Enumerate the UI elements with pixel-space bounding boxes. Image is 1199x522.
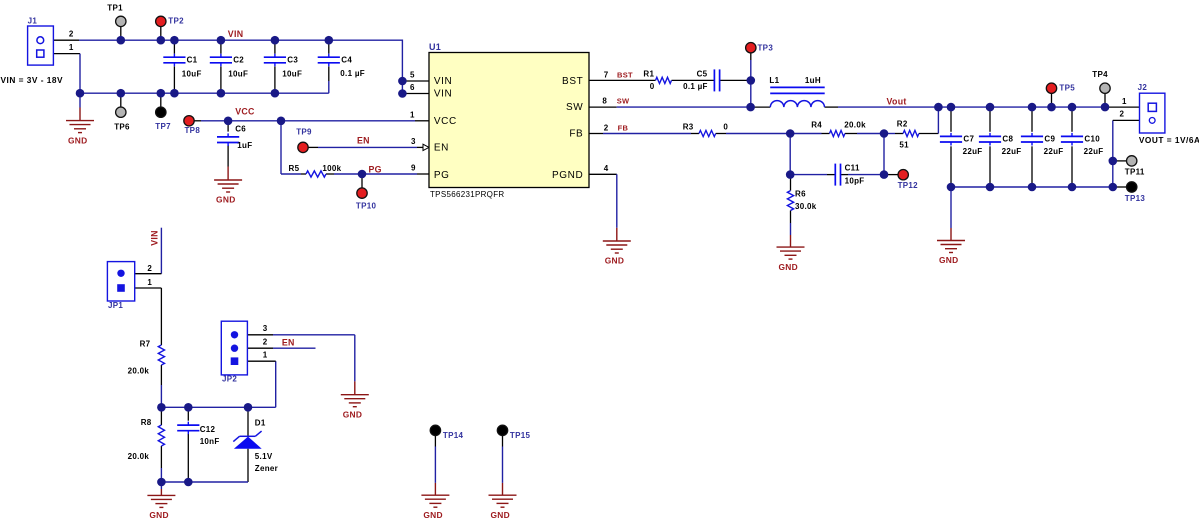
svg-text:VOUT = 1V/6A: VOUT = 1V/6A [1139,135,1199,145]
svg-text:JP2: JP2 [222,374,237,383]
svg-text:TP4: TP4 [1092,70,1108,79]
svg-text:J1: J1 [28,17,38,26]
svg-text:1uH: 1uH [805,76,821,85]
svg-text:C6: C6 [235,124,246,133]
svg-text:C12: C12 [200,425,216,434]
svg-text:VIN: VIN [434,89,452,100]
svg-text:22uF: 22uF [1044,147,1064,156]
svg-text:GND: GND [216,195,236,205]
svg-text:5: 5 [410,70,415,79]
svg-text:22uF: 22uF [1002,147,1022,156]
svg-text:U1: U1 [429,42,441,52]
svg-text:BST: BST [617,71,633,80]
svg-text:0.1 µF: 0.1 µF [683,82,708,91]
svg-text:TP9: TP9 [296,127,312,136]
svg-text:3: 3 [263,324,268,333]
svg-text:22uF: 22uF [1084,147,1104,156]
svg-text:C4: C4 [341,55,352,64]
svg-text:20.0k: 20.0k [128,452,150,461]
svg-text:TPS566231PRQFR: TPS566231PRQFR [430,190,504,199]
svg-text:PG: PG [434,170,450,181]
svg-text:TP7: TP7 [155,122,171,131]
svg-text:R1: R1 [643,69,654,78]
svg-text:GND: GND [490,510,510,520]
svg-text:1: 1 [263,351,268,360]
svg-text:C5: C5 [697,69,708,78]
svg-text:30.0k: 30.0k [795,202,817,211]
svg-text:R8: R8 [141,418,152,427]
svg-text:C2: C2 [233,55,244,64]
svg-text:GND: GND [149,510,169,520]
svg-text:0: 0 [650,82,655,91]
svg-text:R4: R4 [811,120,822,129]
svg-text:R5: R5 [289,164,300,173]
svg-text:C11: C11 [845,164,860,173]
svg-text:JP1: JP1 [108,301,123,310]
svg-text:R2: R2 [897,119,908,128]
svg-text:TP2: TP2 [168,16,184,25]
svg-text:6: 6 [410,83,415,92]
svg-text:FB: FB [569,129,583,140]
svg-text:TP3: TP3 [758,44,774,53]
svg-text:TP11: TP11 [1125,168,1145,177]
svg-text:1uF: 1uF [237,141,252,150]
svg-text:GND: GND [939,255,959,265]
svg-text:TP6: TP6 [114,122,130,131]
svg-text:R6: R6 [795,190,806,199]
svg-text:C7: C7 [963,135,974,144]
svg-text:8: 8 [602,97,607,106]
svg-text:1: 1 [69,43,74,52]
svg-text:1: 1 [1122,97,1127,106]
svg-text:2: 2 [147,264,152,273]
svg-text:9: 9 [411,164,416,173]
svg-text:Vout: Vout [887,96,907,106]
svg-text:TP15: TP15 [510,431,531,440]
svg-text:20.0k: 20.0k [128,366,150,375]
svg-text:VIN = 3V - 18V: VIN = 3V - 18V [1,75,64,85]
svg-text:EN: EN [434,143,449,154]
svg-text:VIN: VIN [434,76,452,87]
svg-text:VCC: VCC [434,116,457,127]
svg-text:TP1: TP1 [107,4,123,13]
svg-text:2: 2 [1120,110,1125,119]
svg-text:10pF: 10pF [845,176,865,185]
svg-text:SW: SW [566,102,583,113]
svg-text:GND: GND [343,409,363,419]
svg-text:4: 4 [604,164,609,173]
svg-text:2: 2 [69,30,74,39]
svg-text:L1: L1 [769,76,779,85]
svg-text:BST: BST [562,76,583,87]
svg-text:TP10: TP10 [356,202,377,211]
svg-text:VIN: VIN [149,230,159,246]
svg-text:Zener: Zener [255,464,278,473]
svg-text:0: 0 [723,123,728,132]
svg-text:FB: FB [618,124,629,133]
svg-text:22uF: 22uF [963,147,983,156]
svg-text:10uF: 10uF [182,70,202,79]
svg-text:10nF: 10nF [200,437,220,446]
svg-text:100k: 100k [322,164,341,173]
svg-text:GND: GND [605,256,625,266]
svg-text:TP12: TP12 [898,181,919,190]
svg-text:5.1V: 5.1V [255,452,273,461]
svg-text:C9: C9 [1044,135,1055,144]
svg-text:10uF: 10uF [228,70,248,79]
svg-text:10uF: 10uF [282,70,302,79]
svg-text:R7: R7 [140,340,151,349]
svg-text:C8: C8 [1002,135,1013,144]
svg-text:20.0k: 20.0k [844,120,866,129]
svg-text:R3: R3 [683,123,694,132]
svg-text:1: 1 [410,111,415,120]
svg-text:VIN: VIN [228,29,244,39]
svg-text:GND: GND [778,262,798,272]
svg-text:EN: EN [357,136,370,146]
svg-text:7: 7 [604,70,609,79]
svg-text:2: 2 [263,338,268,347]
svg-text:GND: GND [423,510,443,520]
svg-text:GND: GND [68,135,88,145]
svg-text:51: 51 [899,140,909,149]
svg-text:J2: J2 [1138,83,1148,92]
svg-text:EN: EN [282,337,295,347]
svg-text:PG: PG [369,165,382,175]
svg-text:VCC: VCC [235,107,255,117]
svg-text:1: 1 [147,278,152,287]
svg-text:TP5: TP5 [1059,84,1075,93]
svg-text:C1: C1 [187,55,198,64]
svg-text:TP8: TP8 [185,126,201,135]
svg-text:3: 3 [411,137,416,146]
svg-text:TP14: TP14 [443,431,464,440]
svg-text:0.1 µF: 0.1 µF [340,69,365,78]
svg-text:PGND: PGND [552,170,583,181]
svg-text:C10: C10 [1084,135,1100,144]
svg-text:D1: D1 [255,418,266,427]
svg-text:SW: SW [617,97,630,106]
svg-text:C3: C3 [287,55,298,64]
svg-text:2: 2 [604,123,609,132]
svg-text:TP13: TP13 [1125,194,1146,203]
